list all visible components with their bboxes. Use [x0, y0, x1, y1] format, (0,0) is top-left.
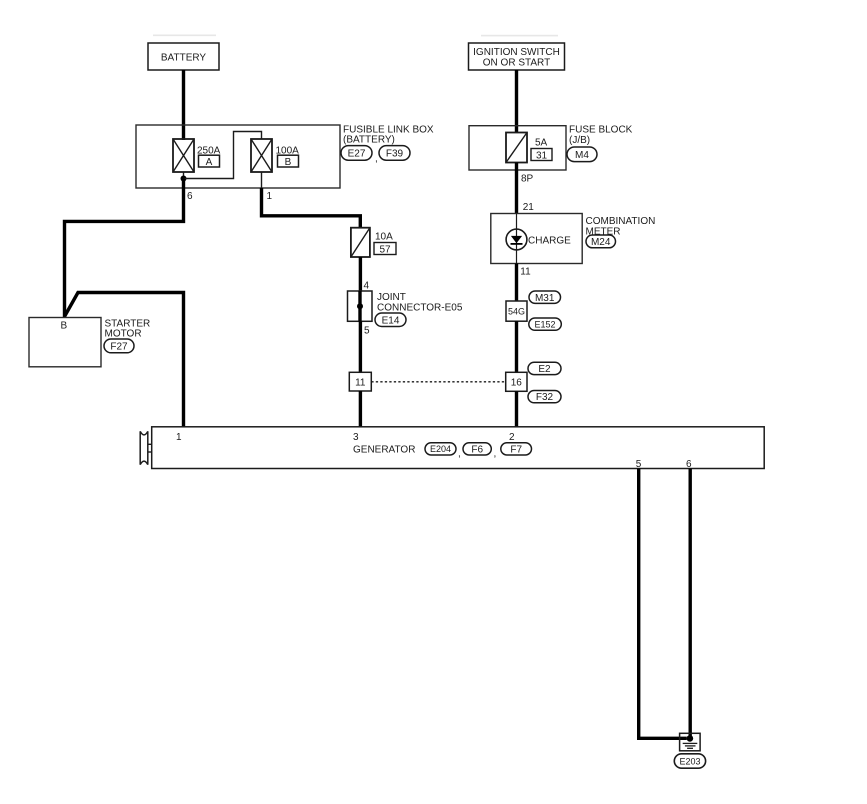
svg-text:GENERATOR: GENERATOR — [353, 444, 415, 455]
connector oval M24 — [586, 235, 616, 248]
wire connector 11 to generator pin3 — [359, 391, 362, 427]
joint connector E05 box — [348, 291, 463, 321]
svg-text:1: 1 — [176, 432, 182, 443]
connector oval E14 — [375, 313, 406, 327]
connector oval E2 — [528, 362, 561, 375]
svg-text:5A: 5A — [535, 138, 548, 149]
wire pin1 to 10A fuse — [262, 188, 361, 228]
fuse 5A 31 — [506, 133, 552, 163]
svg-text:E203: E203 — [679, 756, 700, 766]
wire starter B to generator pin1 — [65, 293, 184, 428]
svg-text:57: 57 — [379, 244, 391, 255]
starter motor box F27 — [29, 318, 150, 367]
svg-text:FUSE BLOCK: FUSE BLOCK — [569, 125, 633, 136]
svg-text:,: , — [375, 154, 378, 165]
svg-text:1: 1 — [267, 191, 273, 202]
svg-text:B: B — [60, 321, 67, 332]
wire joint connector to connector 11 — [359, 321, 362, 372]
svg-text:E14: E14 — [382, 315, 400, 326]
svg-text:E152: E152 — [534, 320, 555, 330]
svg-text:BATTERY: BATTERY — [161, 53, 207, 64]
svg-text:JOINT: JOINT — [377, 292, 406, 303]
fusible link box E27/F39 — [136, 125, 340, 188]
connector oval F7 — [501, 443, 532, 456]
wire pin6 to starter motor — [65, 179, 184, 319]
combination meter box M24 — [491, 214, 582, 264]
svg-text:IGNITION SWITCH: IGNITION SWITCH — [473, 47, 560, 58]
svg-text:4: 4 — [364, 281, 370, 292]
connector box 54G — [506, 301, 527, 321]
connector box 11 — [349, 372, 371, 391]
wire generator pin5 to ground — [639, 469, 687, 739]
svg-text:11: 11 — [355, 377, 366, 388]
dashed harness link 11 to 16 — [371, 381, 505, 383]
svg-text:A: A — [206, 157, 213, 168]
svg-text:E27: E27 — [348, 149, 366, 160]
svg-text:,: , — [458, 449, 461, 460]
connector oval E204 — [425, 443, 461, 460]
svg-text:F7: F7 — [510, 444, 522, 455]
wire battery to fusible link box — [182, 70, 185, 140]
svg-text:MOTOR: MOTOR — [105, 329, 142, 340]
connector oval F6 — [463, 443, 496, 460]
fusible link 100A B — [251, 139, 299, 172]
svg-text:6: 6 — [686, 459, 692, 470]
wire 10A fuse to joint connector — [359, 257, 362, 291]
connector oval F32 — [528, 391, 561, 404]
faint artifact above battery — [153, 35, 216, 37]
wire fuse block to combination meter — [515, 163, 518, 214]
faint artifact above ignition switch — [481, 35, 558, 37]
svg-text:54G: 54G — [508, 307, 525, 317]
svg-text:,: , — [494, 449, 497, 460]
svg-text:B: B — [285, 157, 292, 168]
svg-text:COMBINATION: COMBINATION — [586, 216, 656, 227]
junction dot — [181, 176, 187, 182]
svg-text:5: 5 — [636, 459, 642, 470]
connector oval F27 — [104, 339, 134, 353]
connector oval E203 — [674, 754, 705, 768]
fuse 10A 57 — [351, 228, 396, 257]
wire inside meter — [516, 214, 518, 264]
wire fuse B to box edge — [261, 172, 263, 188]
svg-text:5: 5 — [364, 326, 370, 337]
pulley shaft lines — [148, 443, 152, 445]
fusible link 250A A — [173, 139, 221, 172]
svg-text:CONNECTOR-E05: CONNECTOR-E05 — [377, 302, 463, 313]
generator box — [152, 427, 765, 469]
wire ignition to fuse block — [515, 70, 518, 133]
fuse block box M4 — [469, 126, 566, 170]
svg-text:F27: F27 — [110, 342, 128, 353]
charge lamp diode bar — [511, 243, 523, 245]
ground box E203 — [680, 733, 701, 751]
connector box 16 — [506, 372, 527, 391]
svg-text:6: 6 — [187, 191, 193, 202]
svg-text:F39: F39 — [386, 149, 404, 160]
wire meter to 54G — [515, 264, 518, 302]
svg-text:ON OR START: ON OR START — [483, 58, 550, 69]
svg-text:(BATTERY): (BATTERY) — [343, 135, 395, 146]
svg-text:(J/B): (J/B) — [569, 135, 590, 146]
svg-text:2: 2 — [509, 432, 515, 443]
svg-text:10A: 10A — [375, 232, 393, 243]
connector oval M31 — [529, 291, 561, 304]
svg-text:31: 31 — [536, 150, 548, 161]
svg-text:11: 11 — [520, 267, 531, 278]
wire junction loop to fuse B — [184, 132, 262, 179]
svg-text:E2: E2 — [538, 364, 551, 375]
connector oval F39 — [379, 146, 410, 161]
connector oval E152 — [529, 318, 562, 330]
svg-text:F6: F6 — [471, 444, 483, 455]
connector oval M4 — [567, 147, 597, 162]
svg-text:CHARGE: CHARGE — [528, 235, 571, 246]
svg-text:3: 3 — [353, 432, 359, 443]
svg-text:F32: F32 — [536, 392, 554, 403]
svg-text:M4: M4 — [575, 150, 589, 161]
svg-text:16: 16 — [511, 378, 523, 389]
wire 54G to connector 16 — [515, 321, 518, 372]
generator pulley symbol — [140, 431, 148, 464]
charge lamp circle — [506, 229, 527, 250]
wire generator pin6 to ground — [689, 469, 692, 739]
svg-text:21: 21 — [523, 202, 535, 213]
connector oval E27 — [341, 146, 378, 165]
svg-text:E204: E204 — [430, 444, 451, 454]
wire connector 16 to generator pin2 — [515, 391, 518, 427]
svg-text:M24: M24 — [591, 237, 611, 248]
wire fuse A to junction — [183, 172, 185, 179]
battery box — [148, 43, 219, 70]
svg-text:8P: 8P — [521, 174, 534, 185]
ignition switch box — [469, 43, 565, 70]
charge lamp diode triangle — [511, 236, 522, 243]
svg-text:M31: M31 — [535, 293, 555, 304]
